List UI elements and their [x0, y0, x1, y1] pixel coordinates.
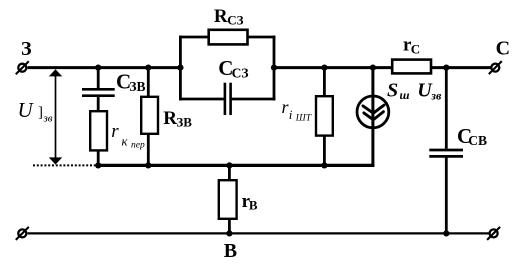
wire r_i top lead — [323, 66, 326, 96]
wire R3B bottom lead — [147, 134, 150, 167]
terminal bottom-left — [16, 227, 29, 240]
node dot CCB top — [443, 65, 449, 71]
node dot r_i top — [321, 65, 327, 71]
svg-text:С: С — [411, 41, 420, 56]
wire rB top lead — [228, 164, 231, 180]
svg-text:ЗВ: ЗВ — [176, 115, 192, 130]
terminal З (gate) — [16, 61, 29, 74]
wire CC3 right lead — [232, 98, 276, 101]
label S U_zv — [387, 80, 442, 103]
svg-text:В: В — [224, 240, 237, 262]
svg-text:В: В — [249, 197, 258, 212]
wire top main right segment — [432, 66, 492, 69]
capacitor CC3 — [225, 83, 231, 115]
wire CCB top lead — [445, 66, 448, 148]
wire r_i bottom lead — [323, 136, 326, 167]
wire current source vertical — [371, 66, 374, 167]
svg-text:зв: зв — [43, 113, 53, 125]
node dot bottom CCB — [443, 230, 449, 236]
wire top main middle segment — [273, 66, 392, 69]
wire R3B top lead — [147, 66, 150, 96]
wire rB bottom lead — [228, 220, 231, 235]
terminal bottom-right — [487, 227, 500, 240]
current source S U — [357, 96, 389, 128]
svg-text:С: С — [496, 38, 510, 60]
resistor rB — [219, 180, 237, 219]
node dot R3B top — [145, 65, 151, 71]
node dot bus R3B — [145, 162, 151, 168]
svg-text:СВ: СВ — [468, 133, 487, 148]
svg-text:к: к — [122, 134, 129, 149]
svg-text:r: r — [111, 121, 119, 142]
svg-text:пер: пер — [131, 141, 145, 151]
node dot bus rB — [226, 162, 232, 168]
wire dotted segment — [33, 164, 97, 166]
wire RC3 left lead — [179, 36, 209, 39]
svg-text:З: З — [21, 38, 32, 60]
capacitor C3B — [82, 89, 115, 95]
svg-text:R: R — [214, 6, 228, 27]
label r_i_sht — [282, 97, 312, 124]
svg-text:U: U — [18, 98, 35, 122]
wire middle bus — [97, 164, 375, 167]
svg-text:S: S — [387, 80, 398, 102]
resistor R3B — [141, 97, 158, 134]
label U_zv — [18, 98, 53, 125]
svg-text:СЗ: СЗ — [227, 12, 243, 27]
node dot C3B top — [95, 65, 101, 71]
terminal C (drain) — [489, 61, 502, 74]
wire top main left segment — [28, 66, 182, 69]
wire feedback left vertical — [179, 36, 182, 101]
wire feedback right vertical — [273, 36, 276, 101]
svg-text:ш: ш — [400, 88, 410, 102]
capacitor CCB — [429, 150, 463, 156]
resistor r_k.per (below C3B) — [90, 111, 107, 150]
wire C3B top lead — [97, 66, 100, 88]
svg-text:зв: зв — [430, 88, 442, 102]
wire CCB bottom lead — [445, 157, 448, 234]
node dot bus left — [95, 162, 101, 168]
node dot source top — [370, 65, 376, 71]
wire r_k bottom lead — [97, 151, 100, 167]
svg-text:ЗВ: ЗВ — [129, 79, 145, 94]
node dot feedback left — [177, 65, 183, 71]
svg-text:i: i — [289, 107, 293, 122]
node dot feedback right — [271, 65, 277, 71]
resistor RC3 — [209, 30, 248, 45]
resistor rC — [392, 60, 431, 74]
resistor r_i_sht — [316, 96, 333, 135]
label r_k.per — [111, 121, 145, 150]
svg-text:СЗ: СЗ — [232, 65, 249, 80]
svg-text:ШТ: ШТ — [295, 114, 312, 124]
arrow U_zv (voltage arrow) — [49, 69, 62, 164]
node dot bottom rB — [226, 230, 232, 236]
wire bottom main — [28, 232, 490, 234]
wire CC3 left lead — [179, 98, 224, 101]
wire C3B to r_k lead — [97, 97, 100, 111]
svg-text:R: R — [163, 108, 177, 129]
node dot bus r_i — [321, 162, 327, 168]
svg-text:]: ] — [38, 105, 43, 121]
wire RC3 right lead — [248, 36, 276, 39]
